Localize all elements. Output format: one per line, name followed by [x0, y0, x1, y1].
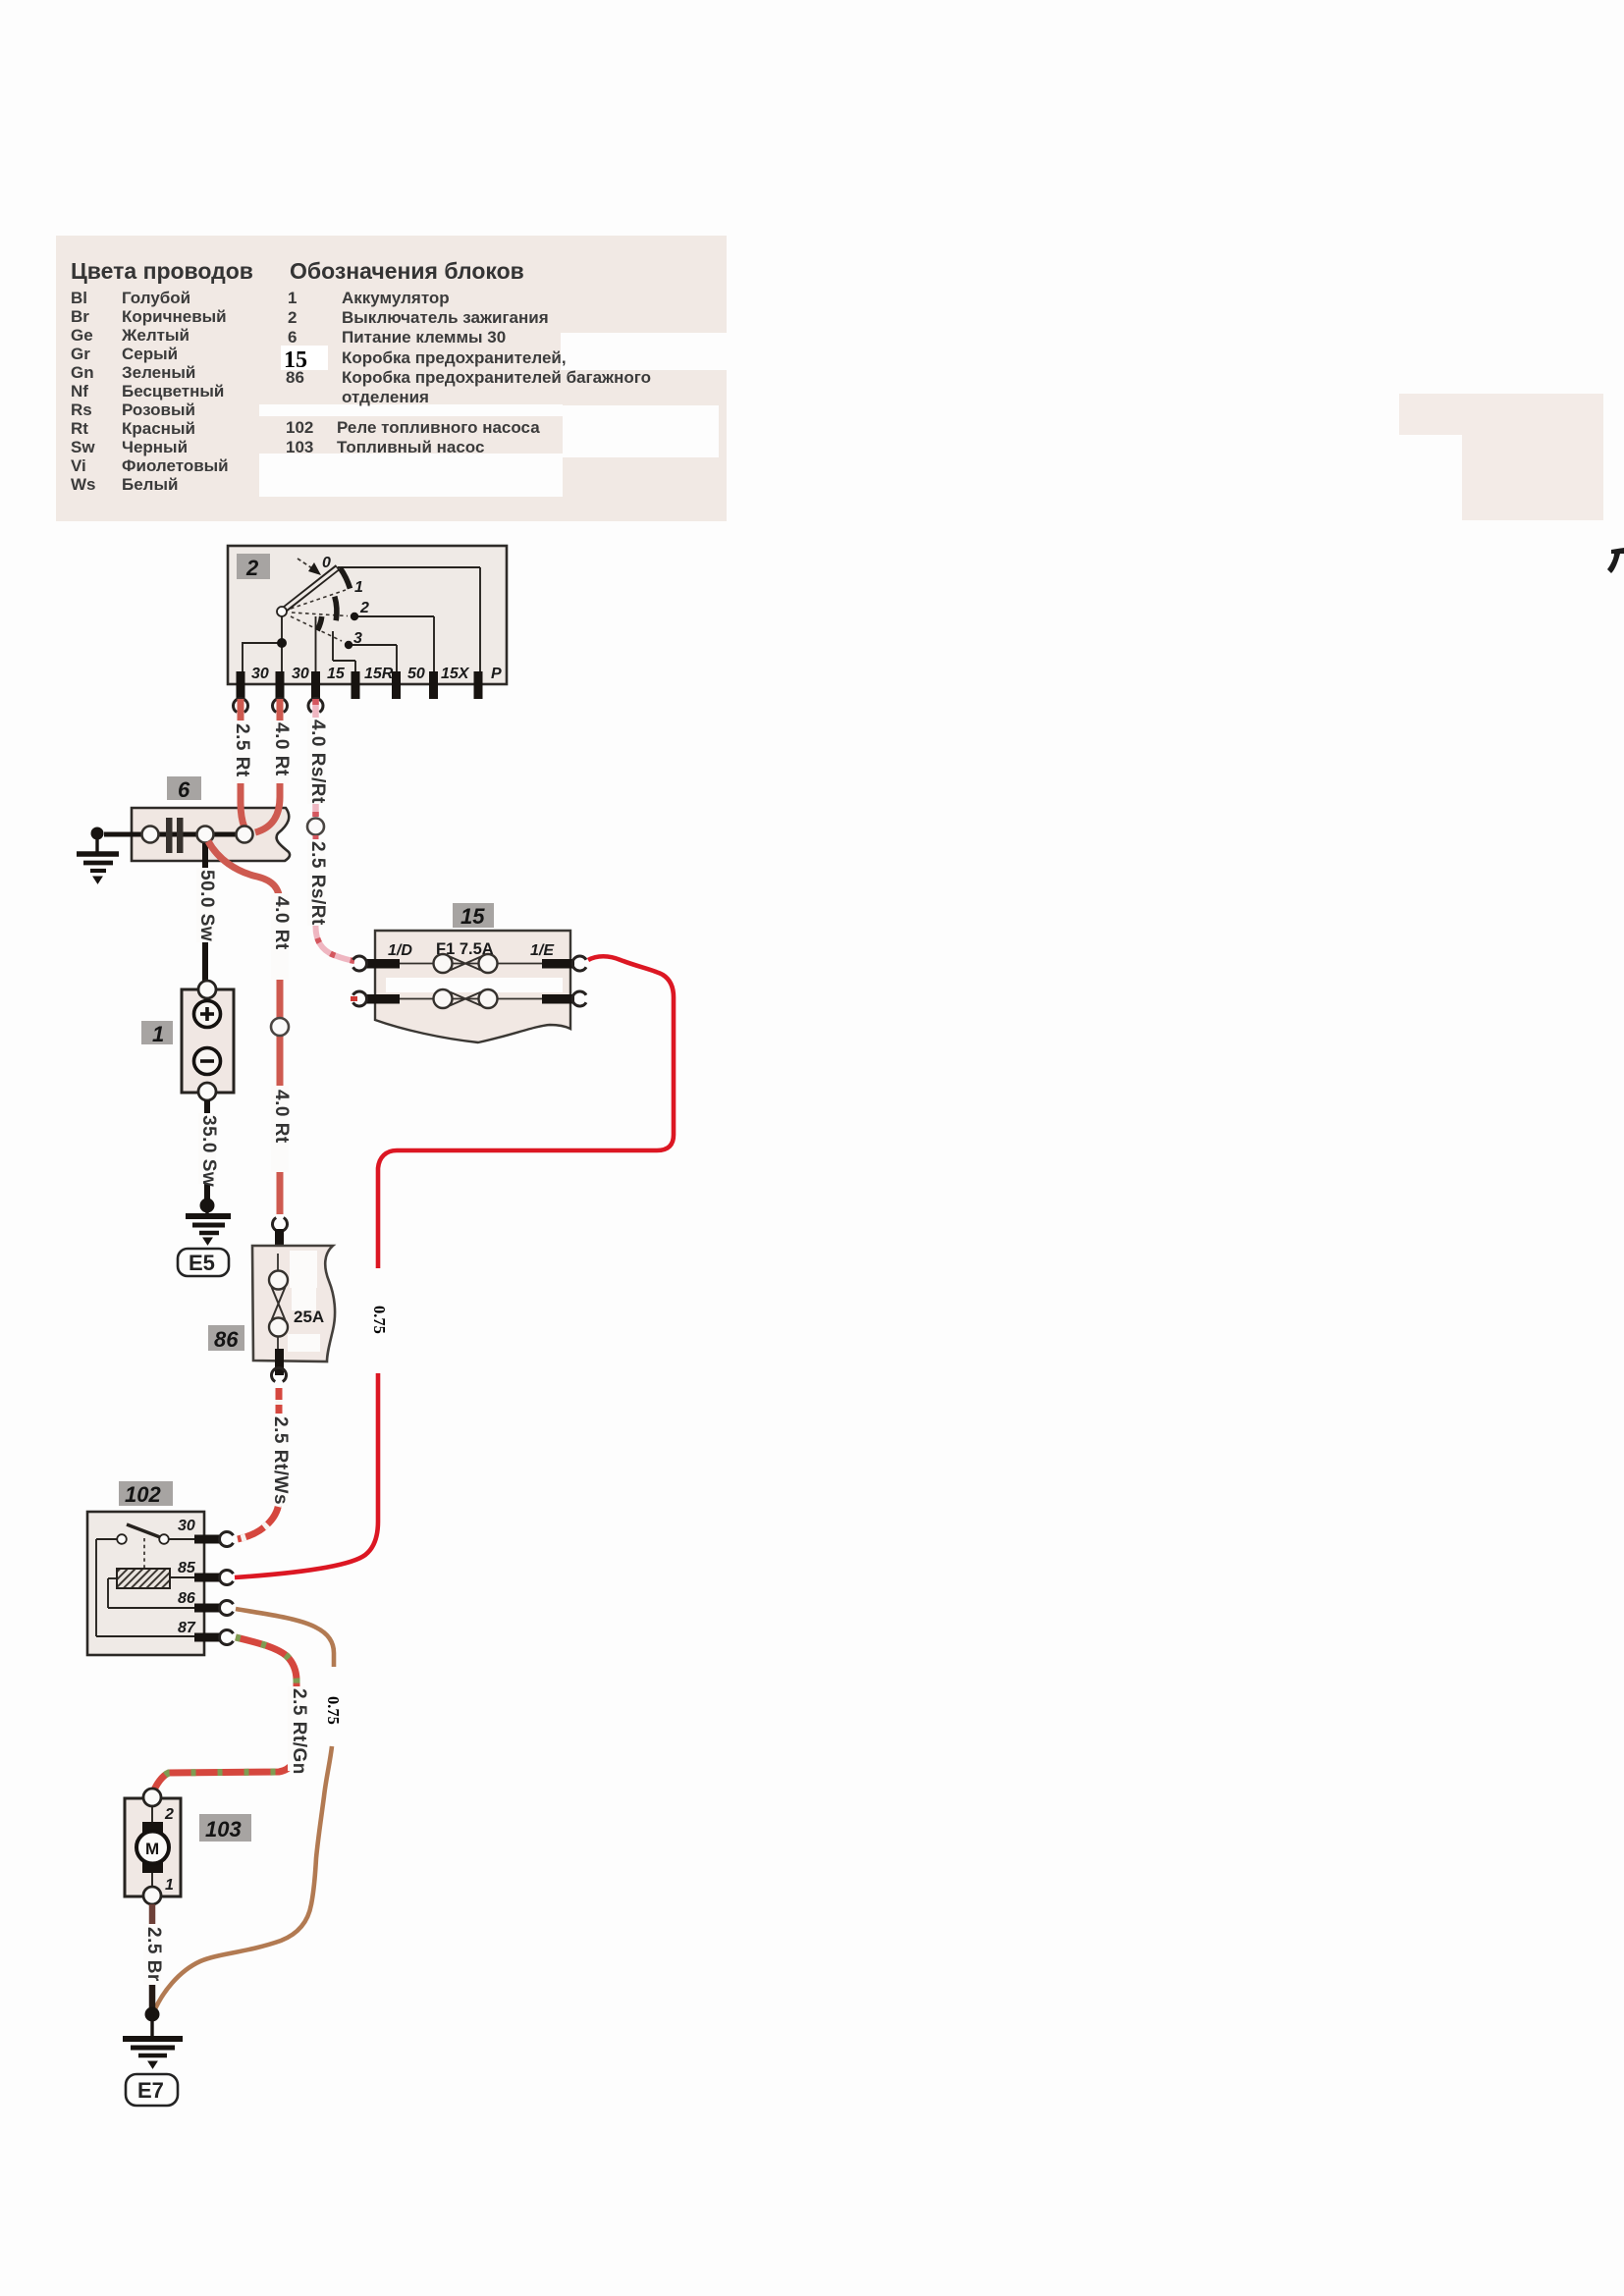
- svg-text:0: 0: [322, 555, 331, 571]
- svg-text:Серый: Серый: [122, 345, 178, 363]
- ground designation E7: [126, 2074, 178, 2106]
- ground symbol at box 6: [77, 839, 119, 883]
- svg-text:0.75: 0.75: [370, 1306, 389, 1334]
- ground symbol E7: [123, 2014, 183, 2068]
- connector at relay pin 86: [220, 1601, 234, 1616]
- svg-text:86: 86: [178, 1590, 195, 1607]
- connector at fuse row 2 right: [572, 991, 586, 1006]
- fuse box 86 bottom pin: [275, 1349, 284, 1375]
- svg-text:103: 103: [205, 1817, 242, 1842]
- svg-text:15: 15: [460, 904, 485, 929]
- svg-text:Цвета проводов: Цвета проводов: [71, 258, 253, 284]
- relay internal wiring: [96, 1539, 194, 1636]
- svg-text:Gr: Gr: [71, 345, 90, 363]
- svg-text:1/D: 1/D: [388, 942, 412, 959]
- ignition switch thick arc 1-2: [335, 597, 337, 621]
- svg-text:30: 30: [292, 666, 309, 682]
- wire 2.5 Br from fuel pump to ground: [143, 1904, 164, 2010]
- legend overlay number 15: [281, 346, 328, 373]
- wire 4.0 Rt from box 6 down to fuse box 86: [208, 841, 292, 1214]
- svg-text:0.75: 0.75: [324, 1696, 343, 1725]
- svg-text:103: 103: [286, 438, 313, 456]
- svg-text:15: 15: [327, 666, 346, 682]
- wire 2.5 Rt/Ws from fuse 86 to relay 30: [238, 1388, 291, 1539]
- relay actuator dashed link: [143, 1538, 145, 1569]
- svg-text:2: 2: [288, 308, 297, 327]
- connector at fuse F1 left: [353, 956, 367, 971]
- svg-text:Аккумулятор: Аккумулятор: [342, 289, 450, 307]
- svg-text:2.5 Rt/Ws: 2.5 Rt/Ws: [270, 1416, 291, 1505]
- ignition switch dashed arrow: [298, 559, 321, 575]
- inline connector on Rs/Rt wire: [307, 819, 324, 835]
- legend block designation rows: [286, 289, 651, 456]
- legend wire colour rows: [71, 289, 229, 494]
- ignition switch lever: [282, 567, 338, 612]
- relay pin 86: [178, 1590, 221, 1613]
- svg-text:1: 1: [354, 579, 363, 596]
- wire 50.0 Sw from box 6 to battery: [196, 843, 217, 994]
- svg-text:Обозначения блоков: Обозначения блоков: [290, 258, 524, 284]
- svg-text:50.0 Sw: 50.0 Sw: [196, 870, 217, 941]
- svg-text:Ge: Ge: [71, 326, 93, 345]
- svg-text:102: 102: [286, 418, 313, 437]
- wire 35.0 Sw from battery to ground: [198, 1100, 219, 1201]
- ignition switch contact 3 node: [345, 641, 352, 649]
- fuel pump terminal 2: [143, 1789, 174, 1823]
- ignition switch pin P: [474, 666, 503, 699]
- box 6 terminal circle left: [142, 827, 159, 843]
- ground junction node E7: [145, 2007, 160, 2022]
- svg-text:Черный: Черный: [122, 438, 188, 456]
- relay label 102: [119, 1481, 173, 1507]
- svg-text:Ws: Ws: [71, 475, 96, 494]
- svg-text:6: 6: [288, 328, 297, 347]
- ignition switch contact 2 node: [351, 613, 358, 620]
- box 6 capacitor: [166, 818, 184, 853]
- ignition switch pin 15R: [352, 666, 394, 699]
- ignition switch junction node: [277, 638, 287, 648]
- relay switch contacts: [117, 1534, 169, 1544]
- ignition switch label 2: [237, 554, 270, 580]
- wire 0.75 red from fuse 1/E to relay 85: [235, 956, 674, 1577]
- fuel pump terminal 1: [143, 1877, 174, 1904]
- svg-text:1: 1: [288, 289, 297, 307]
- svg-text:Gn: Gn: [71, 363, 94, 382]
- fuse row 2: [365, 989, 574, 1008]
- svg-text:50: 50: [407, 666, 425, 682]
- relay pin 85: [178, 1560, 221, 1582]
- svg-text:P: P: [491, 666, 502, 682]
- ignition switch internal wiring: [243, 567, 480, 672]
- svg-text:Фиолетовый: Фиолетовый: [122, 456, 229, 475]
- ignition switch pin 15: [311, 666, 346, 699]
- svg-text:30: 30: [178, 1518, 195, 1534]
- ground designation E5: [178, 1249, 229, 1276]
- svg-text:2: 2: [164, 1806, 174, 1823]
- ground node left of box 6: [91, 828, 104, 840]
- terminal 30 supply box 6: [132, 808, 290, 861]
- relay pin 87: [178, 1620, 221, 1642]
- ignition switch thick arc 0-1: [340, 568, 350, 589]
- svg-text:30: 30: [251, 666, 269, 682]
- svg-text:15R: 15R: [364, 666, 394, 682]
- svg-text:87: 87: [178, 1620, 196, 1636]
- relay pin 30: [178, 1518, 221, 1544]
- svg-text:4.0 Rs/Rt: 4.0 Rs/Rt: [307, 720, 328, 804]
- box 6 terminal circle right: [237, 827, 253, 843]
- svg-text:4.0 Rt: 4.0 Rt: [271, 722, 292, 776]
- connector under pin 15: [308, 699, 323, 713]
- svg-text:2.5 Br: 2.5 Br: [143, 1927, 164, 1982]
- inline connector on 4.0 Rt wire: [271, 1018, 289, 1036]
- svg-text:Топливный насос: Топливный насос: [337, 438, 484, 456]
- clipped glyph at right page edge: [1607, 548, 1624, 573]
- svg-text:1: 1: [165, 1877, 174, 1894]
- ground symbol E5: [186, 1205, 231, 1245]
- svg-text:2: 2: [359, 600, 369, 616]
- connector below fuse box 86: [272, 1368, 287, 1382]
- svg-text:15: 15: [284, 347, 307, 373]
- svg-text:2: 2: [245, 556, 259, 580]
- svg-text:Зеленый: Зеленый: [122, 363, 195, 382]
- svg-text:4.0 Rt: 4.0 Rt: [271, 1090, 292, 1144]
- ignition switch pin 30a: [237, 666, 269, 699]
- svg-text:Питание клеммы 30: Питание клеммы 30: [342, 328, 506, 347]
- svg-text:E5: E5: [189, 1251, 215, 1275]
- fuse box 86 label: [208, 1325, 244, 1352]
- svg-text:Голубой: Голубой: [122, 289, 190, 307]
- svg-text:F1 7.5A: F1 7.5A: [436, 940, 494, 958]
- fuse box 86: [252, 1246, 335, 1362]
- wire 2.5 Rs/Rt to fuse box 15: [307, 835, 354, 961]
- svg-text:Rt: Rt: [71, 419, 88, 438]
- fuel pump label 103: [199, 1814, 251, 1842]
- connector at fuse F1 right: [572, 956, 586, 971]
- svg-text:Выключатель зажигания: Выключатель зажигания: [342, 308, 549, 327]
- ignition switch pin 50: [392, 666, 425, 699]
- svg-text:25A: 25A: [294, 1308, 324, 1326]
- fuel pump motor: [136, 1806, 169, 1889]
- svg-text:Sw: Sw: [71, 438, 95, 456]
- svg-text:Коробка предохранителей,: Коробка предохранителей,: [342, 348, 567, 367]
- fuse F1 row: [365, 954, 574, 973]
- fuse F1 row labels: [388, 940, 555, 959]
- ignition switch pin 15X: [429, 666, 470, 699]
- svg-text:Желтый: Желтый: [121, 326, 189, 345]
- svg-text:6: 6: [178, 777, 190, 802]
- svg-text:отделения: отделения: [342, 388, 429, 406]
- svg-text:Nf: Nf: [71, 382, 88, 400]
- relay switch blade: [127, 1524, 160, 1537]
- svg-text:102: 102: [125, 1482, 161, 1507]
- svg-text:1: 1: [152, 1022, 164, 1046]
- svg-text:Коробка предохранителей багажн: Коробка предохранителей багажного: [342, 368, 651, 387]
- fuse 25A: [269, 1254, 324, 1351]
- wire end connector above fuse box 86: [273, 1218, 288, 1232]
- battery box 1: [182, 989, 234, 1093]
- fuse box 15: [375, 931, 635, 1042]
- wire 2.5 Rt from pin 30a to terminal box: [232, 699, 252, 828]
- svg-text:M: M: [145, 1840, 159, 1858]
- wire 2.5 Rt/Gn from relay 87 to fuel pump: [153, 1637, 309, 1792]
- ignition switch U2 box: [228, 546, 507, 684]
- svg-text:E7: E7: [137, 2078, 164, 2103]
- red wire stub at fuse row 2 left: [351, 996, 357, 1001]
- relay coil: [117, 1569, 170, 1588]
- fuel pump relay 102 box: [87, 1512, 204, 1655]
- legend panel background: [56, 236, 727, 521]
- battery top terminal: [198, 981, 216, 998]
- battery minus pole: [194, 1048, 221, 1075]
- svg-text:Vi: Vi: [71, 456, 86, 475]
- box 6 terminal circle middle: [197, 827, 214, 843]
- svg-text:Красный: Красный: [122, 419, 195, 438]
- box 6 bus wire: [104, 832, 242, 837]
- svg-text:35.0 Sw: 35.0 Sw: [198, 1115, 219, 1187]
- svg-text:85: 85: [178, 1560, 196, 1576]
- svg-text:Коричневый: Коричневый: [122, 307, 227, 326]
- scan artifact pink region top right: [1399, 394, 1603, 520]
- svg-text:3: 3: [353, 630, 362, 647]
- svg-text:4.0 Rt: 4.0 Rt: [271, 896, 292, 950]
- svg-text:15X: 15X: [441, 666, 470, 682]
- ground junction node E5: [200, 1199, 215, 1213]
- connector at relay pin 30: [220, 1532, 234, 1547]
- battery label 1: [141, 1021, 173, 1046]
- svg-text:Bl: Bl: [71, 289, 87, 307]
- fuse box 15 label: [453, 903, 494, 929]
- svg-text:Br: Br: [71, 307, 89, 326]
- connector under pin 30b: [273, 699, 288, 713]
- svg-text:Белый: Белый: [122, 475, 178, 494]
- connector at relay pin 87: [220, 1630, 234, 1645]
- box 6 label: [167, 776, 201, 802]
- ignition switch pin 30b: [276, 666, 309, 699]
- svg-text:2.5 Rt: 2.5 Rt: [232, 723, 252, 777]
- ignition switch thick arc 15: [317, 616, 322, 630]
- wire 4.0 Rt from pin 30b to terminal box: [255, 699, 292, 832]
- ignition switch pivot: [277, 607, 287, 616]
- fuse box 86 top pin: [275, 1229, 284, 1255]
- battery bottom terminal: [198, 1083, 216, 1100]
- connector at fuse row 2 left: [353, 991, 367, 1006]
- fuel pump 103 box: [125, 1798, 181, 1896]
- svg-text:Розовый: Розовый: [122, 400, 195, 419]
- svg-text:Бесцветный: Бесцветный: [122, 382, 224, 400]
- connector at relay pin 85: [220, 1571, 234, 1585]
- connector under pin 30a: [234, 699, 248, 713]
- battery plus pole: [194, 1001, 221, 1028]
- svg-text:Реле топливного насоса: Реле топливного насоса: [337, 418, 540, 437]
- wire 0.75 brown from relay 86 to ground junction: [154, 1609, 343, 2011]
- svg-text:86: 86: [214, 1327, 239, 1352]
- ignition switch dashed selector rays: [291, 590, 348, 641]
- wire 4.0 Rs/Rt from pin 15: [307, 699, 328, 817]
- svg-text:2.5 Rt/Gn: 2.5 Rt/Gn: [289, 1688, 309, 1775]
- svg-text:1/E: 1/E: [530, 942, 555, 959]
- svg-text:Rs: Rs: [71, 400, 92, 419]
- svg-text:2.5 Rs/Rt: 2.5 Rs/Rt: [307, 841, 328, 926]
